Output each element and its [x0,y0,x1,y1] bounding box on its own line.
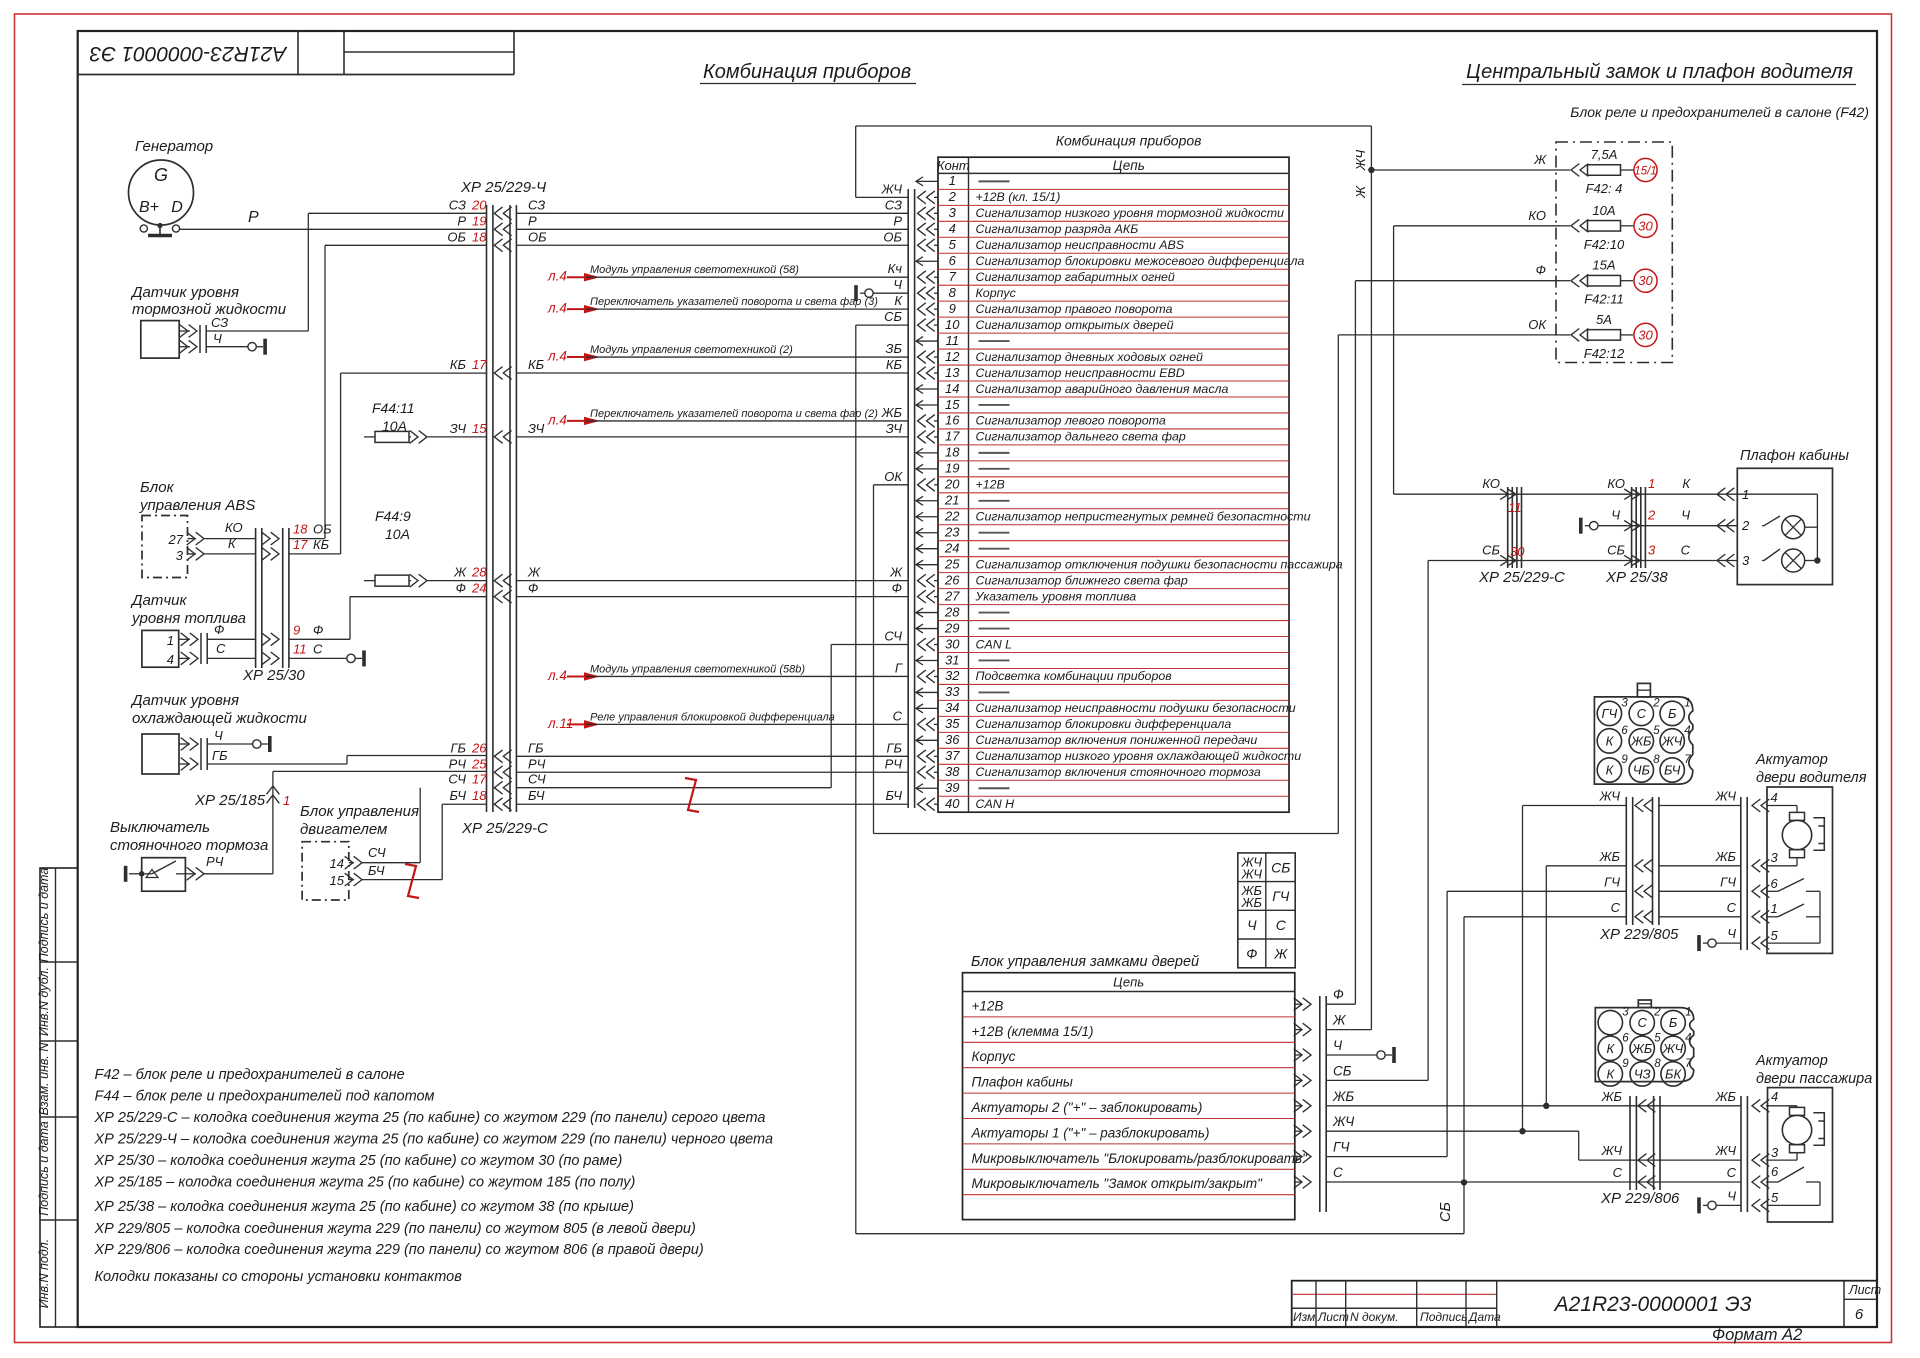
door pin wire ГЧ [1294,1150,1311,1163]
svg-text:18: 18 [945,445,960,460]
table row line 24 [938,556,1289,558]
svg-text:Ж: Ж [1273,946,1288,962]
svg-text:ХР 25/229-С: ХР 25/229-С [461,820,548,837]
svg-text:Ж: Ж [453,565,467,580]
wire Р generator to connector [180,228,487,230]
connector ХР 25/229-С (right) [1507,487,1509,568]
ХР25/229 pin 17 wire СЧ [494,781,511,794]
svg-text:л.4: л.4 [547,269,567,284]
svg-text:Ф: Ф [1246,946,1257,962]
door table row line 8 [963,1194,1295,1196]
svg-text:СЧ: СЧ [528,772,546,787]
svg-text:6: 6 [949,253,957,268]
pin 35 chevrons, wire С [918,718,935,731]
svg-text:Ч: Ч [1727,1188,1736,1203]
switch symbol inside [124,866,128,882]
svg-text:8: 8 [949,285,957,300]
svg-text:СЗ: СЗ [211,315,228,330]
pin 2 chevrons, wire ЖЧ [918,191,935,204]
svg-text:3: 3 [176,548,184,563]
svg-text:Сигнализатор блокировки диффер: Сигнализатор блокировки дифференциала [976,717,1232,731]
parking brake switch box [142,858,186,892]
svg-text:ЖЧ: ЖЧ [1332,1114,1355,1129]
svg-text:ОБ: ОБ [883,229,902,244]
svg-text:БЧ: БЧ [450,788,467,803]
pin 27 chevrons, wire Ф [918,590,935,603]
svg-text:2: 2 [1653,1007,1661,1019]
table row line 36 [938,747,1289,749]
svg-text:27: 27 [168,532,184,547]
svg-text:Ж: Ж [1353,185,1368,199]
svg-text:ЖЧ: ЖЧ [881,181,903,196]
svg-text:К: К [228,536,237,551]
svg-text:Центральный замок и плафон вод: Центральный замок и плафон водителя [1466,61,1853,83]
svg-text:37: 37 [945,748,960,763]
svg-text:5: 5 [1771,1190,1779,1205]
fuel sensor pins [181,633,198,646]
svg-text:КБ: КБ [450,357,467,372]
ХР25/229 pin 18 wire ОБ [494,239,511,252]
wire ОК fuse4 left [1338,334,1560,336]
svg-text:6: 6 [1855,1306,1864,1323]
svg-text:ХР 25/229-С – колодка соедине: ХР 25/229-С – колодка соединения жгута 2… [94,1110,766,1126]
svg-text:Генератор: Генератор [135,138,213,155]
svg-text:Микровыключатель "Блокировать/: Микровыключатель "Блокировать/разблокиро… [972,1151,1309,1166]
svg-text:Комбинация приборов: Комбинация приборов [703,61,911,83]
svg-text:Лист: Лист [1848,1283,1881,1297]
ХР25/229 pin 28 wire Ж [494,574,511,587]
cluster connector pair lines [907,189,909,808]
door lock table [963,973,1295,1220]
svg-text:Сигнализатор дальнего света фа: Сигнализатор дальнего света фар [976,430,1186,444]
pin 5 chevrons, wire ОБ [918,239,935,252]
svg-text:К: К [894,293,903,308]
svg-text:С: С [313,641,323,656]
wire СЧ riser to CAN L row 30 [830,645,832,788]
svg-text:Сигнализатор блокировки межосе: Сигнализатор блокировки межосевого диффе… [976,254,1305,268]
red break mark near engine block [405,864,419,898]
svg-text:СБ: СБ [1333,1063,1352,1078]
svg-text:Конт: Конт [937,158,970,173]
ХР25/30 pin 9 wire Ф [262,633,279,646]
ХР229/806 row ЖБ [1638,1099,1655,1112]
table row line 20 [938,492,1289,494]
svg-text:ЖЧ: ЖЧ [1599,789,1621,804]
svg-text:+12В: +12В [972,998,1004,1013]
svg-text:ЖЧ: ЖЧ [1715,1143,1737,1158]
svg-text:29: 29 [944,620,959,635]
svg-text:Подпись и дата: Подпись и дата [37,868,51,963]
svg-text:ХР 25/38: ХР 25/38 [1605,569,1668,586]
svg-text:Ф: Ф [214,622,224,637]
svg-text:19: 19 [945,461,959,476]
wire СЧ from connector to riser [516,787,831,789]
connector ХР 229/806 pairs [1629,1096,1631,1190]
svg-text:F42:10: F42:10 [1584,237,1625,252]
ХР229/805 row ЖЧ [1635,799,1652,812]
svg-text:ГБ: ГБ [528,740,544,755]
svg-text:СЗ: СЗ [528,197,545,212]
svg-text:5: 5 [1653,725,1660,737]
svg-text:ЖЧ: ЖЧ [1601,1143,1623,1158]
svg-text:ЖБ: ЖБ [1715,849,1737,864]
pin 21 open arrow [916,496,938,505]
svg-text:D: D [171,199,183,216]
svg-text:23: 23 [944,525,960,540]
svg-text:20: 20 [471,197,487,212]
svg-text:5: 5 [1654,1032,1661,1044]
svg-text:ХР 25/30: ХР 25/30 [242,667,305,684]
svg-text:С: С [1681,543,1691,558]
pin 14 open arrow [916,384,938,393]
ХР25/229 pin 20 wire СЗ [494,207,511,220]
pin 24 open arrow [916,544,938,553]
svg-text:С: С [1727,900,1737,915]
door pin wire ЖБ [1294,1099,1311,1112]
svg-text:4: 4 [1684,725,1690,737]
table row line 13 [938,380,1289,382]
pin 36 open arrow [916,736,938,745]
svg-text:Подпись и дата: Подпись и дата [37,1121,51,1216]
wire С fuel to ground [207,657,255,659]
svg-text:25: 25 [471,756,487,771]
svg-text:Р: Р [528,213,537,228]
svg-text:3: 3 [1648,543,1656,558]
svg-text:С: С [1276,917,1287,933]
wire Ж fuse to connector [427,580,487,582]
svg-text:7: 7 [949,269,957,284]
table row line 7 [938,284,1289,286]
svg-text:Комбинация приборов: Комбинация приборов [1056,133,1202,149]
svg-text:Переключатель указателей повор: Переключатель указателей поворота и свет… [590,408,878,420]
pin 32 chevrons, wire Г [918,670,935,683]
svg-text:8: 8 [1654,1058,1661,1070]
svg-text:F42: 4: F42: 4 [1586,181,1623,196]
svg-text:28: 28 [944,604,960,619]
svg-text:1: 1 [1771,901,1778,916]
svg-text:3: 3 [1621,697,1628,709]
pin 6 open arrow [916,257,938,266]
svg-text:Лист: Лист [1317,1310,1349,1324]
wire ГБ to row 37 [207,763,347,765]
svg-text:Ч: Ч [1247,917,1257,933]
wire ЗЧ fuse to connector [427,436,487,438]
svg-text:ЖБ: ЖБ [1601,1089,1623,1104]
svg-text:15: 15 [472,421,487,436]
svg-text:10: 10 [945,317,960,332]
door pin wire С [1294,1176,1311,1189]
svg-text:7,5А: 7,5А [1591,147,1618,162]
svg-text:35: 35 [945,716,960,731]
svg-text:ЖБ: ЖБ [1241,895,1263,910]
svg-text:ХР 25/185: ХР 25/185 [194,792,266,809]
svg-text:33: 33 [945,684,960,699]
svg-text:6: 6 [1621,725,1628,737]
brake fluid sensor box [141,321,179,359]
svg-text:СЗ: СЗ [449,197,466,212]
svg-text:ЖБ: ЖБ [1715,1089,1737,1104]
svg-text:С: С [1613,1165,1623,1180]
title block [1292,1281,1877,1327]
generator ground [157,223,162,228]
table row line 3 [938,220,1289,222]
svg-text:3: 3 [1622,1007,1629,1019]
svg-text:ЖБ: ЖБ [1332,1089,1354,1104]
svg-text:Модуль управления светотехнико: Модуль управления светотехникой (58b) [590,663,805,675]
svg-text:ХР 229/805 – колодка соединен: ХР 229/805 – колодка соединения жгута 22… [94,1221,696,1237]
ХР25/229 pin 24 wire Ф [494,590,511,603]
svg-text:31: 31 [945,652,959,667]
wire Ч coolant to ground [207,743,252,745]
svg-text:3: 3 [949,205,957,220]
ХР229/806 row С [1638,1176,1655,1189]
svg-text:ЖБ: ЖБ [1631,1041,1653,1056]
engine control unit box [302,842,349,900]
svg-text:ГБ: ГБ [886,740,902,755]
pin 11 open arrow [916,337,938,346]
table row line 4 [938,236,1289,238]
svg-text:Корпус: Корпус [972,1049,1016,1064]
svg-text:ГЧ: ГЧ [1601,706,1617,721]
brake sensor connector pair [199,325,201,353]
ХР25/229 pin 18 wire БЧ [494,798,511,811]
svg-text:Ч: Ч [213,331,222,346]
wire Ч to ground [206,346,248,348]
door pin wire Ф [1294,998,1311,1011]
svg-text:Сигнализатор разряда АКБ: Сигнализатор разряда АКБ [976,222,1139,236]
svg-text:л.4: л.4 [547,668,567,683]
svg-text:N докум.: N докум. [1350,1310,1399,1324]
wire Ж fuse1 from junction [1371,169,1560,171]
svg-text:3: 3 [1742,553,1750,568]
wire КБ to row 13 [289,553,341,555]
wire БЧ from connector to table row 40 [516,803,908,805]
svg-text:Плафон кабины: Плафон кабины [1740,448,1849,464]
svg-text:Актуатор: Актуатор [1755,1053,1828,1069]
svg-text:5: 5 [1771,928,1779,943]
table row line 32 [938,683,1289,685]
svg-text:24: 24 [944,540,959,555]
svg-text:ЧЗ: ЧЗ [1634,1066,1651,1081]
wire ЖЧ to 806 and riser to 805 [1326,1130,1579,1132]
door table row line 1 [963,1016,1295,1018]
svg-text:1: 1 [167,633,174,648]
ХР25/229 pin 15 wire ЗЧ [494,431,511,444]
table row line 1 [938,188,1289,190]
lamp 2 [1762,560,1764,562]
svg-text:ХР 25/229-Ч: ХР 25/229-Ч [460,179,547,196]
door table row line 5 [963,1118,1295,1120]
svg-text:ХР 25/229-С: ХР 25/229-С [1478,569,1565,586]
svg-text:ОБ: ОБ [447,229,466,244]
svg-text:1: 1 [283,793,290,808]
svg-text:Ч: Ч [1611,508,1620,523]
svg-text:3: 3 [1771,850,1779,865]
svg-text:4: 4 [1685,1032,1691,1044]
svg-text:ОК: ОК [1528,317,1547,332]
svg-text:3: 3 [1771,1145,1779,1160]
passenger actuator motor [1782,1115,1811,1144]
svg-text:8: 8 [1653,754,1660,766]
pin 12 chevrons, wire ЗБ [918,351,935,364]
table row line 12 [938,364,1289,366]
svg-text:4: 4 [1771,790,1778,805]
svg-text:14: 14 [945,381,959,396]
svg-text:Датчик уровня: Датчик уровня [130,692,239,709]
table row line 37 [938,763,1289,765]
svg-text:С: С [1611,900,1621,915]
svg-text:1: 1 [1685,1007,1691,1019]
svg-text:стояночного тормоза: стояночного тормоза [110,837,268,854]
svg-text:БЧ: БЧ [528,788,545,803]
left gost strip [40,868,78,1327]
svg-text:СБ: СБ [1271,859,1290,875]
table row line 34 [938,715,1289,717]
svg-text:КБ: КБ [528,357,545,372]
red terminal circle 30 [1634,214,1657,237]
pin 1 open arrow [916,177,938,186]
svg-text:управления ABS: управления ABS [139,497,255,514]
pin 16 chevrons, wire ЖБ [918,415,935,428]
lamp 1 [1762,525,1764,527]
svg-text:ЖЧ: ЖЧ [1715,789,1737,804]
svg-text:Сигнализатор правого поворота: Сигнализатор правого поворота [976,302,1173,316]
fuel sensor box [142,630,179,667]
pin 31 open arrow [916,656,938,665]
svg-text:Б: Б [1668,706,1677,721]
pin 18 open arrow [916,448,938,457]
door table row line 3 [963,1067,1295,1069]
svg-text:21: 21 [944,493,959,508]
svg-text:4: 4 [167,652,174,667]
svg-text:2: 2 [1652,697,1660,709]
svg-text:F42:11: F42:11 [1584,292,1624,307]
svg-text:15А: 15А [1592,258,1615,273]
table row line 27 [938,604,1289,606]
svg-text:Плафон кабины: Плафон кабины [972,1075,1073,1090]
driver actuator motor [1782,820,1811,849]
svg-text:двигателем: двигателем [300,821,387,838]
svg-text:Актуаторы 2 ("+" – заблокиров: Актуаторы 2 ("+" – заблокировать) [971,1100,1203,1115]
svg-text:ЖБ: ЖБ [1599,849,1621,864]
svg-text:Блок реле и предохранителей в: Блок реле и предохранителей в салоне (F4… [1570,104,1869,120]
driver actuator box [1767,787,1833,953]
svg-text:ГБ: ГБ [450,740,466,755]
pin 38 chevrons, wire РЧ [918,766,935,779]
svg-text:30: 30 [1638,327,1653,342]
svg-text:26: 26 [944,572,960,587]
svg-text:Блок управления замками дверей: Блок управления замками дверей [971,954,1199,970]
coolant sensor box [142,734,179,774]
vertical Ж/ЖЧ line down to door unit [1370,126,1372,1030]
pin 39 open arrow [916,784,938,793]
svg-text:38: 38 [945,764,960,779]
wire Ч to ground [1326,1054,1377,1056]
svg-text:1: 1 [1684,697,1690,709]
table row line 9 [938,316,1289,318]
svg-text:К: К [1682,476,1691,491]
svg-text:ОК: ОК [884,469,903,484]
svg-text:28: 28 [471,565,487,580]
svg-text:Актуаторы 1 ("+" – разблокиро: Актуаторы 1 ("+" – разблокировать) [971,1125,1210,1140]
table row line 5 [938,252,1289,254]
table row line 17 [938,444,1289,446]
svg-text:F44:9: F44:9 [375,508,411,524]
svg-text:14: 14 [330,856,344,871]
svg-text:Цепь: Цепь [1113,158,1145,173]
svg-text:Модуль управления светотехнико: Модуль управления светотехникой (58) [590,264,799,276]
svg-text:ХР 229/805: ХР 229/805 [1599,926,1679,943]
svg-text:БК: БК [1665,1066,1682,1081]
wire Ч row with ground [1579,518,1583,534]
ABS control unit box [142,516,188,578]
svg-text:уровня топлива: уровня топлива [131,610,246,627]
svg-text:7: 7 [1685,1058,1692,1070]
svg-text:ХР 229/806 – колодка соединен: ХР 229/806 – колодка соединения жгута 22… [94,1242,704,1258]
svg-text:F42 – блок реле и предохранит: F42 – блок реле и предохранителей в сало… [95,1067,405,1083]
svg-text:С: С [1333,1165,1343,1180]
svg-text:КО: КО [1607,476,1625,491]
svg-text:С: С [1638,1015,1648,1030]
svg-text:ЗЧ: ЗЧ [450,421,467,436]
table row line 30 [938,652,1289,654]
door table row line 7 [963,1168,1295,1170]
svg-text:30: 30 [945,636,960,651]
svg-text:С: С [216,641,226,656]
svg-text:Инв.N дубл.: Инв.N дубл. [37,967,51,1036]
wire С to 806 and riser to 805 [1326,1181,1660,1183]
svg-text:СБ: СБ [1607,543,1625,558]
svg-text:Актуатор: Актуатор [1755,752,1828,768]
svg-text:Сигнализатор ближнего света фа: Сигнализатор ближнего света фар [976,573,1188,587]
wire РЧ to row 38 [273,770,487,772]
door table row line 6 [963,1143,1295,1145]
pin 25 open arrow [916,560,938,569]
svg-text:Ж: Ж [527,565,541,580]
wire ЖЧ row2 to top [856,196,909,198]
red break mark on СЧ/БЧ wires near table [685,778,699,812]
svg-text:Ф: Ф [456,581,466,596]
svg-text:ОБ: ОБ [528,229,547,244]
pin 15 open arrow [916,400,938,409]
pin 29 open arrow [916,624,938,633]
svg-text:ЗБ: ЗБ [886,341,903,356]
svg-text:Колодки показаны со стороны ус: Колодки показаны со стороны установки ко… [95,1269,463,1285]
svg-text:Ф: Ф [1333,987,1344,1002]
pin 19 open arrow [916,464,938,473]
svg-text:РЧ: РЧ [528,756,546,771]
СБ riser from door table [1427,561,1429,1081]
svg-text:Ч: Ч [1333,1038,1343,1053]
svg-text:ЖБ: ЖБ [1630,733,1652,748]
svg-text:Б: Б [1669,1015,1678,1030]
svg-text:ЗЧ: ЗЧ [886,421,903,436]
svg-text:9: 9 [1622,1058,1629,1070]
passenger actuator box [1768,1088,1833,1222]
connector ХР 25/229 vertical pairs [486,205,488,812]
table row line 15 [938,412,1289,414]
pin 7 chevrons, wire Кч [918,271,935,284]
svg-text:13: 13 [945,365,960,380]
wire ОБ to row 5 [289,538,325,540]
svg-text:Ф: Ф [528,581,538,596]
table row line 10 [938,332,1289,334]
wire Ф fuse3 down-left [1355,280,1560,282]
wire Ч ground to pin 5 (806) [1697,1197,1701,1213]
svg-text:С: С [893,708,903,723]
svg-text:Модуль управления светотехнико: Модуль управления светотехникой (2) [590,344,793,356]
svg-text:Ф: Ф [892,581,902,596]
